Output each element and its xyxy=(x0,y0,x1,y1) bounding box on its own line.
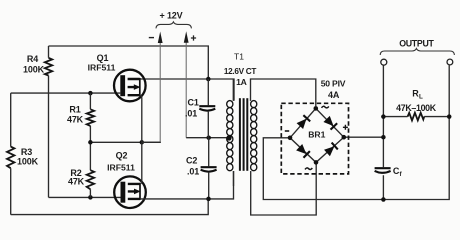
resistor R3 xyxy=(7,93,14,215)
label R2 47K xyxy=(68,168,85,187)
svg-text:47K: 47K xyxy=(68,177,85,187)
resistor R4 xyxy=(45,46,52,197)
label C2 .01 xyxy=(186,156,199,177)
svg-text:R1: R1 xyxy=(69,104,80,114)
node C2 bottom junction xyxy=(206,197,211,202)
svg-text:.01: .01 xyxy=(185,109,197,119)
label Q2 IRF511 xyxy=(107,151,135,173)
label 50 PIV 4A xyxy=(321,79,346,100)
svg-text:OUTPUT: OUTPUT xyxy=(399,38,434,48)
diode D-bottomright xyxy=(324,143,338,157)
capacitor Cf xyxy=(375,168,391,173)
label bridge minus xyxy=(285,130,289,132)
capacitor C2 .01 xyxy=(201,138,217,199)
svg-text:C1: C1 xyxy=(188,98,199,108)
svg-text:IRF511: IRF511 xyxy=(107,163,135,173)
resistor R2 xyxy=(87,142,94,197)
wire Q1 gate net (left rail top, y=93) xyxy=(11,92,121,94)
svg-text:Q2: Q2 xyxy=(116,151,128,161)
diode D-bottomleft xyxy=(296,144,310,158)
node bridge right vertex xyxy=(342,135,347,140)
wire bridge plus output xyxy=(344,136,384,138)
terminal output right xyxy=(447,59,453,65)
wire top rail (Q1 drain net, y=46) xyxy=(49,46,209,79)
wire left output rail xyxy=(382,65,384,199)
wire plus supply corner to center tap xyxy=(186,137,229,139)
svg-text:L: L xyxy=(419,94,423,101)
wire Q2 gate net (R4 bottom - R2 bottom - Q2 gate) xyxy=(49,196,121,198)
label ~ top xyxy=(322,106,329,108)
label ~ bottom xyxy=(305,168,312,170)
node Cf bottom junction xyxy=(381,197,386,202)
svg-text:50 PIV: 50 PIV xyxy=(321,79,346,89)
label R1 47K xyxy=(67,104,84,124)
svg-text:R4: R4 xyxy=(27,54,38,64)
transformer T1 primary winding xyxy=(227,79,234,186)
label R3 100K xyxy=(17,147,39,167)
svg-text:C2: C2 xyxy=(186,156,197,166)
node R2 bottom junction xyxy=(88,195,93,200)
svg-text:T1: T1 xyxy=(234,52,244,62)
power +12V supply arrows xyxy=(158,31,189,142)
svg-text:100K: 100K xyxy=(17,157,39,167)
svg-text:4A: 4A xyxy=(328,90,340,100)
node source junction xyxy=(140,140,145,145)
label C1 .01 xyxy=(185,98,199,119)
svg-text:R3: R3 xyxy=(21,147,32,157)
node bridge top vertex xyxy=(314,106,319,111)
wire minus supply corner to source rail xyxy=(142,141,160,143)
wire source rail (Q1 source, Q2 source, R1/R2 mid, -12V) xyxy=(90,141,160,143)
label T1 12.6V CT 1A xyxy=(224,52,256,87)
label OUTPUT with brace xyxy=(380,38,454,55)
bridge rectifier BR1 diamond xyxy=(288,106,346,165)
wire bottom rail (Q2 drain net to left rail) xyxy=(11,199,209,215)
node bridge plus junction xyxy=(381,135,386,140)
diode D-topright xyxy=(323,116,337,130)
label minus supply xyxy=(149,37,154,39)
node transformer center tap xyxy=(226,135,231,140)
resistor RL 47K-100K xyxy=(381,113,451,121)
node R1-R2 midpoint xyxy=(88,140,93,145)
label R4 100K xyxy=(23,54,45,75)
svg-text:.01: .01 xyxy=(187,167,199,177)
transformer T1 secondary winding xyxy=(251,101,257,171)
label Q1 IRF511 xyxy=(88,53,116,73)
label plus supply xyxy=(191,35,196,40)
node R1 top junction xyxy=(88,91,93,96)
capacitor C1 .01 xyxy=(199,79,215,138)
wire bridge minus output xyxy=(263,65,449,199)
wire Q1 source lead xyxy=(140,95,142,142)
node bridge bottom vertex xyxy=(314,160,319,165)
label bridge plus xyxy=(343,125,348,130)
svg-text:47K–100K: 47K–100K xyxy=(396,103,437,113)
wire Q2 drain to transformer primary bottom xyxy=(140,171,234,199)
transistor Q2 IRF511 xyxy=(114,176,146,208)
svg-text:Q1: Q1 xyxy=(97,53,109,63)
svg-text:100K: 100K xyxy=(23,65,45,75)
node Q1 drain / C1 top junction xyxy=(206,77,211,82)
wire Q1 drain to transformer primary top xyxy=(140,79,234,101)
svg-text:IRF511: IRF511 xyxy=(88,63,116,73)
label RL xyxy=(412,89,423,101)
svg-text:+ 12V: + 12V xyxy=(159,11,182,21)
bridge rectifier BR1 dashed box xyxy=(281,103,348,174)
svg-text:BR1: BR1 xyxy=(308,129,325,139)
wire Q2 source lead xyxy=(140,142,142,184)
resistor R1 xyxy=(87,93,94,142)
diode D-topleft xyxy=(296,115,310,129)
label +12V with brace xyxy=(156,11,191,29)
node C1/C2 tap junction xyxy=(206,135,211,140)
wire secondary top to bridge xyxy=(251,79,316,106)
wire secondary bottom to bridge xyxy=(251,165,317,216)
svg-text:47K: 47K xyxy=(67,114,84,124)
terminal output left xyxy=(381,59,387,65)
svg-text:1A: 1A xyxy=(236,77,246,87)
node bridge left vertex xyxy=(288,136,293,141)
transformer T1 core xyxy=(239,98,248,171)
svg-text:12.6V CT: 12.6V CT xyxy=(224,67,256,76)
label Cf xyxy=(393,166,403,178)
transistor Q1 IRF511 xyxy=(114,70,146,102)
